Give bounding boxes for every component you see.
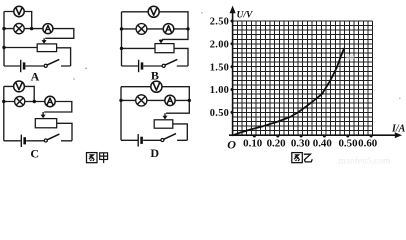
switch (circuit B) (162, 64, 165, 67)
wire D top row (121, 87, 189, 114)
wire A bottom row (4, 65, 71, 67)
faint smudge near curve (346, 55, 355, 61)
curve U-I (233, 49, 344, 136)
lamp (circuit A) (14, 23, 24, 33)
wire C top branch (4, 86, 34, 101)
lamp (circuit B) (136, 24, 147, 35)
node junction lamp-ammeter A (30, 27, 33, 30)
y tick 2.50 (231, 20, 234, 23)
node right rail row2 B (186, 27, 189, 30)
resistor rheostat box (circuit D) (154, 120, 173, 128)
switch (circuit C) (44, 139, 47, 142)
svg-text:0.50: 0.50 (210, 108, 229, 119)
voltmeter V (circuit D) (151, 81, 162, 92)
y axis U (232, 9, 234, 135)
caption 图甲 (87, 153, 108, 163)
battery (circuit B) (138, 60, 140, 72)
svg-text:1.00: 1.00 (210, 85, 229, 96)
wire A top branch (4, 12, 32, 29)
wire D left rail (120, 87, 122, 141)
wire B top row (122, 12, 189, 40)
battery (circuit C) (20, 135, 22, 147)
switch (circuit A) (44, 64, 47, 67)
node left rail row2 B (120, 27, 123, 30)
wire D bottom row (121, 139, 187, 141)
svg-text:I/A: I/A (391, 123, 406, 134)
node junction lamp-V C (33, 100, 36, 103)
resistor rheostat box (circuit B) (155, 44, 174, 53)
x axis I (229, 134, 399, 136)
ammeter A (circuit B) (163, 24, 174, 35)
rheostat wiper arrow (circuit C) (42, 112, 44, 116)
svg-text:U/V: U/V (237, 10, 254, 20)
wire A row2 (4, 29, 74, 39)
svg-text:0.60: 0.60 (358, 138, 378, 150)
wire B bottom row (122, 65, 189, 67)
battery (circuit A) (20, 60, 22, 72)
y tick 1.50 (231, 65, 234, 68)
wire B row3 (122, 48, 189, 66)
svg-text:1.50: 1.50 (210, 62, 229, 73)
ammeter A (circuit C) (45, 96, 55, 106)
svg-text:0.20: 0.20 (267, 138, 287, 150)
x tick 0.10 (253, 135, 256, 138)
x tick 0.60 (370, 135, 373, 138)
rheostat wiper arrow (circuit D) (164, 113, 166, 117)
y tick 2.00 (231, 42, 234, 45)
voltmeter V (circuit A) (14, 6, 24, 16)
caption 图乙 (292, 153, 313, 163)
voltmeter V (circuit B) (148, 6, 159, 17)
voltmeter V (circuit C) (14, 81, 25, 92)
svg-text:.manfen5.com: .manfen5.com (336, 156, 391, 166)
wire A left rail (3, 12, 5, 67)
wire C bottom row (4, 140, 72, 142)
svg-text:0.30: 0.30 (291, 138, 311, 150)
node right rail row2 D (188, 99, 191, 102)
x tick 0.30 (300, 135, 303, 138)
svg-text:0.10: 0.10 (243, 138, 263, 150)
wire B left rail (121, 12, 123, 66)
wire B row2 (122, 28, 189, 30)
grid of graph (233, 21, 373, 135)
battery (circuit D) (137, 134, 139, 146)
svg-text:C: C (30, 146, 39, 160)
svg-text:O: O (227, 137, 236, 151)
svg-text:2.50: 2.50 (210, 17, 229, 28)
x tick 0.40 (323, 135, 326, 138)
x tick 0.50 (346, 135, 349, 138)
x tick 0.20 (276, 135, 279, 138)
svg-text:0.40: 0.40 (313, 138, 333, 150)
svg-text:2.00: 2.00 (210, 39, 229, 50)
wire C box right (57, 123, 72, 141)
switch (circuit D) (161, 138, 164, 141)
svg-text:A: A (31, 69, 40, 83)
rheostat wiper arrow (circuit B) (160, 39, 162, 41)
rheostat wiper arrow (circuit A) (43, 38, 45, 41)
wire A row3 (4, 48, 71, 67)
node left rail row3 B (120, 47, 123, 50)
node left rail row2 C (2, 100, 5, 103)
lamp (circuit D) (136, 95, 147, 106)
wire D row2 (121, 99, 189, 101)
svg-text:D: D (150, 146, 159, 160)
speck marks (73, 12, 400, 99)
svg-text:0.50: 0.50 (338, 138, 358, 150)
node junction left rail row2 A (2, 27, 5, 30)
ammeter A (circuit A) (43, 24, 53, 34)
node junction left rail row3 A (2, 46, 5, 49)
wire C left rail (3, 86, 5, 140)
y tick 1.00 (231, 88, 234, 91)
wire C row2 (4, 102, 72, 113)
resistor rheostat box (circuit C) (35, 119, 56, 128)
resistor rheostat box (circuit A) (37, 44, 56, 52)
wire D box right (173, 124, 188, 140)
ammeter A (circuit D) (165, 95, 175, 105)
lamp (circuit C) (15, 96, 25, 106)
y tick 0.50 (231, 111, 234, 114)
node left rail row2 D (119, 99, 122, 102)
